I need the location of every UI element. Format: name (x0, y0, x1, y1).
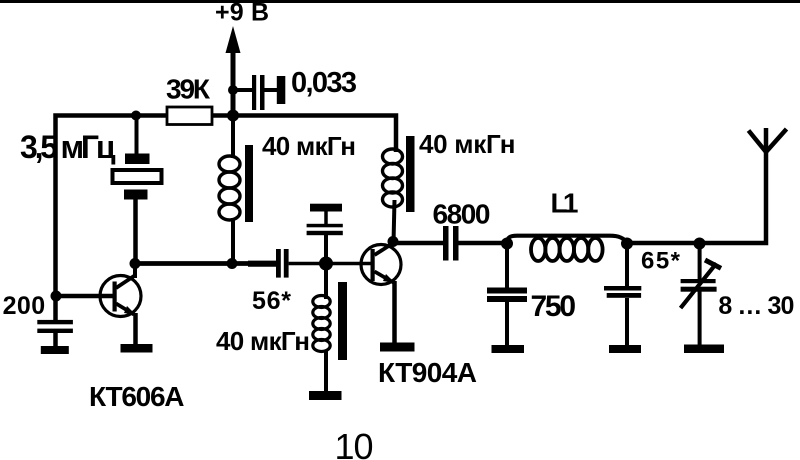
svg-text:65*: 65* (641, 247, 681, 274)
svg-text:8 … 30: 8 … 30 (718, 292, 794, 320)
svg-text:40 мкГн: 40 мкГн (262, 131, 356, 161)
svg-text:КТ904А: КТ904А (378, 357, 477, 388)
svg-text:40 мкГн: 40 мкГн (216, 326, 310, 356)
svg-text:0,033: 0,033 (291, 67, 357, 99)
svg-text:6800: 6800 (433, 199, 491, 230)
svg-text:40 мкГн: 40 мкГн (419, 129, 516, 159)
svg-text:10: 10 (335, 426, 374, 460)
svg-text:750: 750 (531, 290, 577, 323)
svg-text:КТ606А: КТ606А (89, 381, 185, 412)
svg-text:L1: L1 (551, 188, 579, 219)
svg-text:+9 В: +9 В (215, 0, 269, 27)
svg-text:39К: 39К (166, 74, 211, 105)
svg-text:56*: 56* (252, 287, 291, 315)
svg-text:200: 200 (3, 292, 46, 320)
svg-text:3,5 мГц: 3,5 мГц (20, 129, 116, 165)
